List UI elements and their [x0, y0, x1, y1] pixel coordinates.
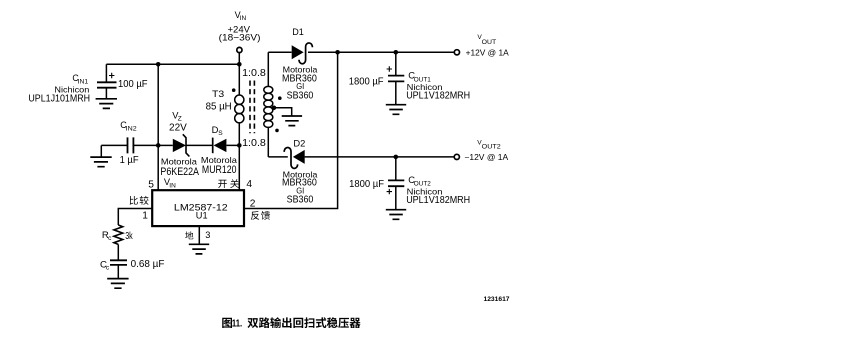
svg-text:Z: Z: [178, 115, 182, 122]
center tap wire: [272, 106, 277, 111]
transformer T3 secondary: [267, 52, 269, 157]
svg-text:2: 2: [250, 198, 256, 209]
svg-text:1231617: 1231617: [484, 296, 510, 303]
capacitor CC: [110, 260, 127, 265]
transformer T3 primary: [238, 64, 240, 190]
capacitor COUT1: [395, 52, 397, 104]
svg-text:22V: 22V: [169, 123, 187, 134]
secondary phase dot upper: [278, 96, 282, 100]
wire: left vertical (VIN to pin5): [157, 64, 159, 190]
terminal VIN input: [238, 53, 240, 65]
svg-text:100 µF: 100 µF: [118, 79, 148, 90]
diode DS MUR120: [186, 144, 239, 146]
zener diode VZ P6KE22A: [158, 144, 173, 146]
svg-text:5: 5: [148, 179, 154, 190]
svg-text:1800 µF: 1800 µF: [349, 77, 384, 88]
svg-text:P6KE22A: P6KE22A: [160, 166, 199, 178]
svg-text:SB360: SB360: [287, 91, 314, 102]
node junction feedback tap: [335, 50, 340, 55]
svg-text:SB360: SB360: [287, 195, 314, 206]
svg-text:OUT: OUT: [482, 39, 497, 46]
terminal VOUT2: [454, 154, 459, 159]
wire: D1 output rail: [268, 51, 454, 53]
node junction top rail / primary: [237, 62, 242, 67]
svg-text:1:0.8: 1:0.8: [242, 138, 266, 149]
pin 1 label: [130, 196, 138, 205]
wire: top V_IN rail: [106, 63, 239, 65]
svg-text:OUT2: OUT2: [482, 143, 501, 150]
diode D2 MBR360: [293, 150, 305, 164]
ground CIN1: [96, 99, 117, 109]
svg-text:D2: D2: [293, 138, 305, 148]
secondary phase dot lower: [275, 129, 279, 133]
primary phase dot: [232, 88, 236, 92]
wire: D2 output rail: [268, 156, 454, 158]
svg-text:D1: D1: [292, 27, 304, 37]
svg-text:IN: IN: [169, 182, 176, 189]
transformer core: [250, 81, 254, 134]
resistor RC 3k: [114, 225, 123, 244]
svg-text:85 µH: 85 µH: [206, 101, 232, 112]
pin 3 label: [185, 231, 193, 239]
svg-text:IN: IN: [240, 15, 247, 22]
node junction CIN2/zener/pin5: [156, 143, 161, 148]
diode D1 MBR360: [292, 45, 304, 59]
svg-text:MUR120: MUR120: [202, 164, 237, 176]
svg-text:(18−36V): (18−36V): [219, 33, 261, 43]
node junction top rail / left vertical: [156, 62, 161, 67]
svg-text:−12V @ 1A: −12V @ 1A: [464, 153, 509, 162]
ground CC: [107, 279, 128, 289]
svg-text:+12V @ 1A: +12V @ 1A: [466, 49, 510, 58]
svg-text:S: S: [218, 130, 223, 137]
svg-text:1800 µF: 1800 µF: [349, 179, 384, 190]
ground pin3: [189, 244, 209, 254]
node junction COUT2: [394, 155, 399, 160]
capacitor COUT2: [395, 157, 397, 210]
svg-text:11.: 11.: [232, 318, 242, 330]
svg-text:U1: U1: [196, 211, 208, 221]
terminal VOUT1: [454, 50, 459, 55]
svg-text:UPL1V182MRH: UPL1V182MRH: [406, 195, 470, 206]
svg-text:4: 4: [246, 179, 252, 190]
pin 4 label: [218, 180, 227, 188]
svg-text:0.68 µF: 0.68 µF: [131, 259, 165, 270]
svg-text:IN2: IN2: [126, 126, 138, 133]
svg-text:UPL1V182MRH: UPL1V182MRH: [406, 91, 470, 102]
ground center tap: [282, 116, 302, 126]
capacitor CIN2: [101, 144, 158, 146]
op-amp U1 regulator LM2587-12 box: [152, 190, 244, 226]
svg-text:OUT2: OUT2: [414, 181, 432, 188]
pin 3 ground: [198, 226, 200, 244]
ground COUT2: [386, 210, 406, 220]
capacitor CIN1: [105, 64, 107, 99]
ground COUT1: [386, 105, 406, 115]
wire: feedback from +12V rail to pin2: [244, 52, 338, 208]
svg-text:1:0.8: 1:0.8: [242, 68, 266, 79]
svg-text:3: 3: [205, 230, 210, 240]
ground CIN2: [90, 157, 111, 167]
caption 图11. 双路输出回扫式稳压器: [222, 318, 232, 328]
pin 1 wire + RC CC: [118, 209, 152, 226]
node junction DS / primary: [237, 143, 242, 148]
svg-text:1: 1: [142, 211, 148, 222]
svg-text:T3: T3: [212, 88, 224, 99]
svg-text:1 µF: 1 µF: [120, 155, 139, 166]
node junction COUT1: [394, 50, 399, 55]
svg-text:GI: GI: [296, 82, 304, 91]
svg-text:3k: 3k: [125, 231, 133, 242]
svg-text:UPL1J101MRH: UPL1J101MRH: [28, 94, 90, 105]
svg-text:IN1: IN1: [78, 78, 89, 85]
